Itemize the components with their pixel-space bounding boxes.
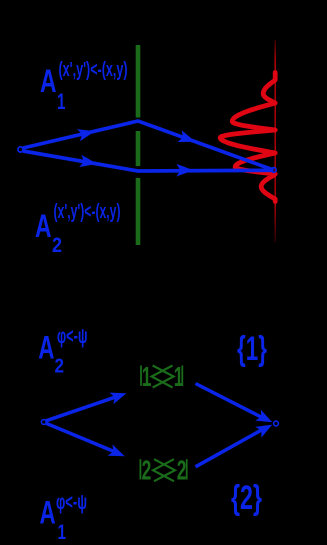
svg-text:{1}: {1} <box>237 330 267 368</box>
svg-text:2: 2 <box>177 454 187 485</box>
svg-text:φ<-ψ: φ<-ψ <box>56 491 87 514</box>
svg-text:φ<-ψ: φ<-ψ <box>57 325 88 348</box>
svg-text:A: A <box>38 329 54 365</box>
svg-text:1: 1 <box>57 89 66 114</box>
svg-text:(x',y')<-(x,y): (x',y')<-(x,y) <box>54 200 121 223</box>
svg-text:2: 2 <box>142 454 152 485</box>
svg-text:1: 1 <box>174 361 184 392</box>
svg-text:1: 1 <box>142 361 152 392</box>
svg-text:2: 2 <box>52 234 62 257</box>
svg-text:A: A <box>40 63 57 99</box>
svg-text:(x',y')<-(x,y): (x',y')<-(x,y) <box>59 58 128 81</box>
svg-text:1: 1 <box>58 521 67 544</box>
svg-text:2: 2 <box>55 356 65 378</box>
svg-text:{2}: {2} <box>231 479 262 517</box>
svg-text:A: A <box>40 494 56 530</box>
svg-text:A: A <box>35 208 52 244</box>
